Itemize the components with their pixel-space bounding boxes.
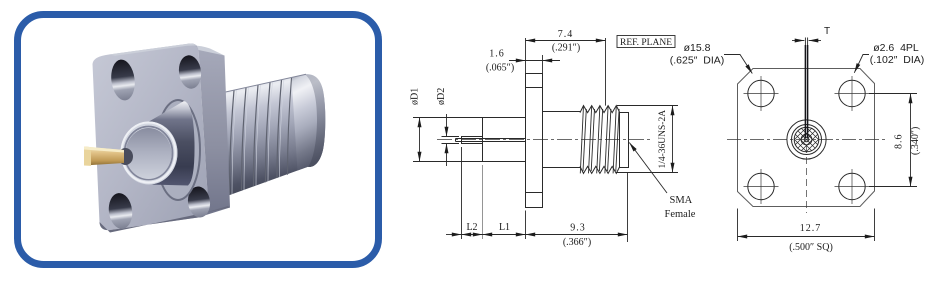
svg-text:T: T — [824, 26, 830, 37]
photo frame — [18, 15, 379, 265]
dim D2 extension lines — [442, 137, 460, 144]
boss front face rim — [121, 122, 178, 185]
center boss cylinder — [149, 101, 195, 186]
threaded barrel — [221, 74, 325, 196]
dim D2 arrows — [446, 114, 448, 137]
dielectric circle — [794, 127, 819, 152]
end cap — [620, 113, 629, 168]
svg-text:øD1: øD1 — [410, 88, 421, 105]
svg-text:SMA: SMA — [670, 195, 693, 206]
center pin circle — [804, 137, 809, 142]
center contact wire — [456, 139, 526, 142]
svg-text:1/4-36UNS-2A: 1/4-36UNS-2A — [658, 110, 668, 169]
svg-text:(.500″ SQ): (.500″ SQ) — [789, 242, 833, 253]
dim D1 extension lines — [413, 118, 483, 162]
gold contact pin — [84, 147, 124, 166]
right front view — [670, 26, 924, 253]
svg-text:(.340″): (.340″) — [910, 127, 921, 155]
dim D1 line — [419, 118, 421, 162]
pin socket — [118, 148, 133, 165]
dim T arrows — [792, 40, 804, 42]
flange chamfer line upper — [526, 87, 543, 89]
svg-text:12.7: 12.7 — [800, 223, 822, 234]
thread flanks — [580, 106, 619, 174]
flange plate — [93, 44, 231, 233]
svg-text:ø15.8: ø15.8 — [684, 42, 711, 54]
contact pin sleeve — [462, 137, 483, 144]
svg-text:9.3: 9.3 — [570, 223, 586, 234]
dim T ext lines — [805, 38, 807, 46]
flange chamfer line lower — [526, 192, 543, 194]
horizontal centerline — [727, 139, 886, 141]
dim 7.4 line — [526, 40, 606, 42]
hole top-right — [839, 80, 865, 106]
REF PLANE box — [617, 36, 675, 48]
flange hole bottom-left — [107, 192, 134, 231]
dim 8.6 line — [910, 94, 912, 187]
thread crest top — [580, 106, 620, 113]
dim L1 line — [483, 234, 526, 236]
thread OD dim line — [672, 106, 674, 173]
thread OD extension lines — [616, 106, 678, 173]
svg-text:L2: L2 — [466, 222, 477, 233]
boss platform ring — [156, 100, 200, 200]
center mid circle — [792, 125, 822, 155]
svg-text:(.102″ DIA): (.102″ DIA) — [870, 54, 924, 66]
hole bottom-left — [748, 173, 774, 199]
dim 12.7 ext lines — [738, 209, 875, 242]
flange plate side — [526, 74, 543, 208]
SMA Female leader — [629, 143, 667, 194]
dim L2 arrow lead — [446, 234, 462, 236]
dim 1.6 arrows — [509, 60, 526, 62]
hole bottom-right — [839, 173, 865, 199]
boss front face disc — [126, 128, 172, 179]
centerline — [437, 139, 651, 141]
svg-text:(.065″): (.065″) — [486, 63, 514, 74]
crosshatch — [790, 105, 822, 174]
thread crest bottom — [580, 166, 620, 173]
contact pin edge view — [805, 45, 807, 138]
contact circle — [801, 134, 812, 145]
flange hole top-left — [109, 58, 137, 102]
dim 1.6 extension line — [542, 55, 544, 74]
svg-text:øD2: øD2 — [436, 88, 447, 105]
svg-text:8.6: 8.6 — [894, 134, 905, 150]
flange hole top-right — [177, 54, 203, 90]
vertical centerline — [806, 146, 808, 213]
dim 7.4 extension lines — [526, 38, 606, 106]
svg-text:(.366″): (.366″) — [563, 237, 591, 248]
svg-text:(.291″): (.291″) — [552, 43, 580, 54]
label dia 2.6 leader — [854, 55, 869, 73]
center body circle — [787, 120, 826, 159]
dim 9.3 line — [526, 234, 628, 236]
hole top-left — [748, 80, 774, 106]
dim 8.6 ext lines — [869, 94, 917, 187]
svg-text:(.625″ DIA): (.625″ DIA) — [670, 55, 724, 67]
barrel neck — [543, 112, 581, 168]
label dia 15.8 leader — [724, 55, 752, 74]
flange outline with chamfered corners — [738, 69, 875, 207]
bottom dims extension lines — [462, 147, 628, 242]
rear body — [483, 118, 526, 162]
dim 12.7 line — [738, 236, 875, 238]
dim L2 line — [462, 234, 483, 236]
flange hole bottom-right — [186, 185, 212, 218]
svg-text:Female: Female — [665, 209, 696, 220]
boss face inner ring — [125, 127, 173, 180]
svg-text:REF. PLANE: REF. PLANE — [620, 38, 672, 48]
3D connector photo — [84, 44, 325, 233]
svg-text:L1: L1 — [499, 222, 510, 233]
svg-text:1.6: 1.6 — [489, 49, 505, 60]
middle side view — [410, 29, 696, 248]
svg-text:7.4: 7.4 — [558, 29, 574, 40]
svg-text:ø2.6 4PL: ø2.6 4PL — [873, 42, 919, 54]
